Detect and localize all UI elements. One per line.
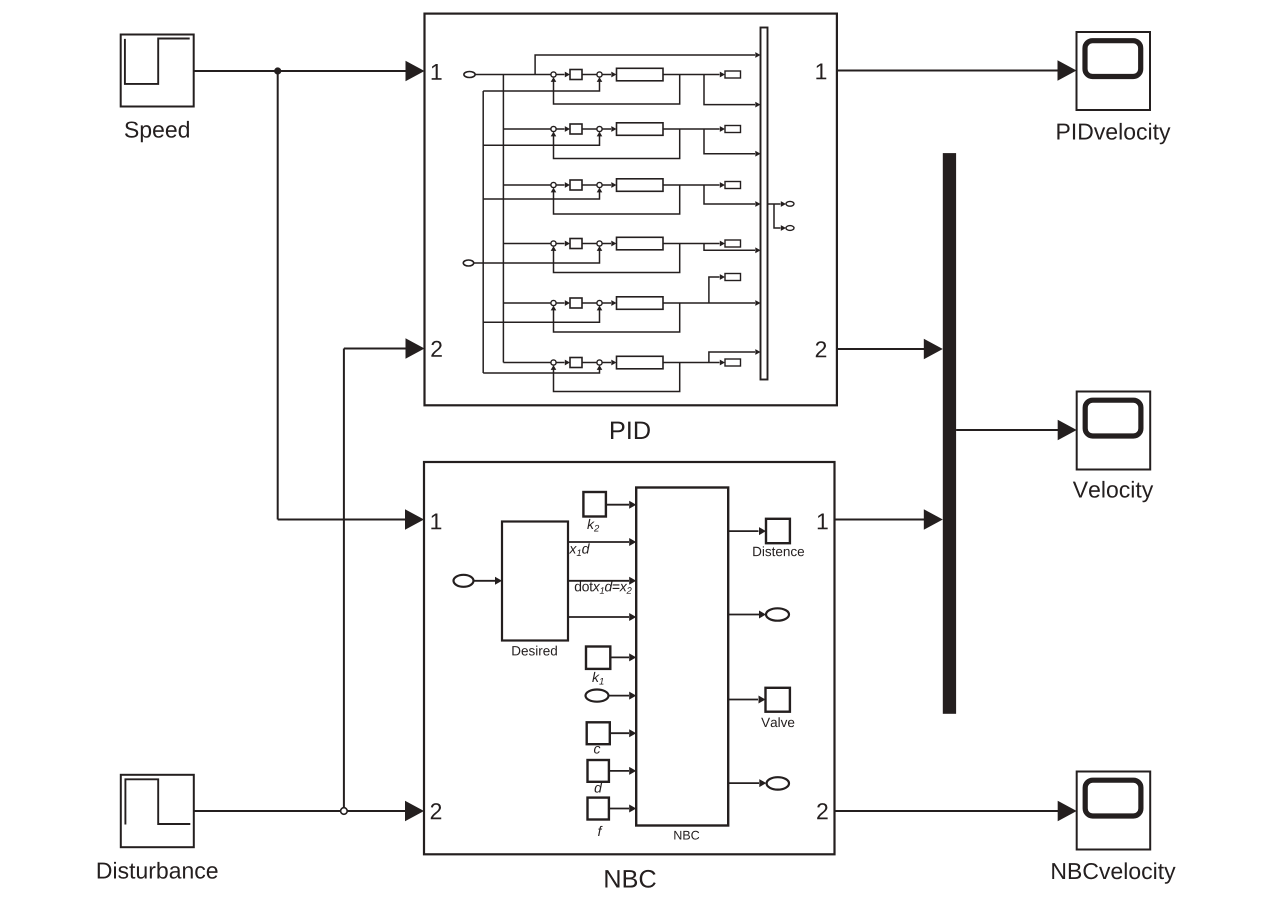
- NBC inner right oval 2: [767, 777, 789, 789]
- step source Speed: [121, 35, 194, 107]
- subsystem NBC box: [424, 462, 835, 854]
- wire mux to Velocity: [956, 420, 1077, 440]
- PID inner row 3 bus A stub: [483, 188, 602, 199]
- NBC inner wire oval to Desired: [474, 577, 503, 585]
- PID inner row 5 branch up to display rect: [709, 274, 725, 303]
- PID inner row 2 gain square: [570, 124, 582, 134]
- PID inner row 1 input wire: [475, 74, 551, 76]
- PID inner wire oval2 to bus A: [474, 262, 484, 264]
- PID port label 2 right: [816, 341, 826, 357]
- PID inner row 4 branch into mux: [704, 244, 761, 254]
- NBC port label 1 left: [431, 513, 441, 529]
- PID inner row 3 wire gain to circle2: [582, 184, 597, 186]
- NBC port label 2 right: [817, 803, 827, 819]
- PID inner row 5 input wire: [503, 302, 551, 304]
- PID inner row 4 bus A stub: [483, 246, 602, 263]
- PID inner row 2 input wire: [503, 128, 551, 130]
- PID inner row 6 bus A stub: [483, 365, 602, 373]
- wire NBC out1 to mux: [835, 509, 943, 529]
- NBC inner constant f: [588, 798, 609, 820]
- PID inner row 1 display rect: [725, 71, 741, 78]
- PID inner row 2 display rect: [725, 126, 741, 133]
- PID inner row 1 wire gain to circle2: [582, 74, 597, 76]
- PID inner row 1 bus A stub: [483, 77, 602, 91]
- PID inner row 2 branch into mux: [704, 129, 761, 157]
- PID inner row 2 sum circle 2: [597, 126, 602, 131]
- mux bar: [943, 153, 956, 714]
- NBC inner constant k2: [583, 492, 606, 517]
- label Valve: [761, 717, 794, 727]
- PID inner row 5 gain square: [570, 298, 582, 308]
- PID inner row 5 sum circle 2: [597, 300, 602, 305]
- PID inner row 2 wire circle1 to gain: [556, 126, 570, 132]
- NBC inner constant c: [587, 722, 610, 744]
- PID inner row 2 bus A stub: [483, 132, 602, 146]
- PID inner row 6 branch up into mux: [709, 349, 761, 362]
- PID inner row 3 branch into mux: [704, 185, 761, 207]
- PID inner mux bar: [761, 28, 768, 380]
- PID inner row 1 transfer fcn block: [617, 68, 664, 81]
- NBC inner wire block to Valve: [728, 696, 765, 704]
- PID inner row 4 input wire: [503, 243, 551, 245]
- PID port label 1 right: [816, 63, 826, 79]
- label f: [598, 826, 603, 836]
- PID inner row 3 display rect: [725, 182, 741, 189]
- PID inner row 5 wire gain to circle2: [582, 302, 597, 304]
- label dotx1d=x2: [575, 581, 632, 594]
- label k2: [587, 519, 599, 532]
- label PIDvelocity: [1057, 123, 1170, 144]
- PID inner row 4 sum circle 1: [551, 241, 556, 246]
- PID inner row 6 sum circle 2: [597, 360, 602, 365]
- NBC inner wire c to block: [610, 729, 636, 737]
- NBC inner block Valve: [766, 688, 790, 712]
- PID inner row 4 display rect: [725, 240, 741, 247]
- wire Speed to PID port 1: [194, 61, 425, 81]
- label Speed: [125, 121, 189, 142]
- NBC inner wire block to Distence: [728, 527, 766, 535]
- NBC inner wire k2 to block: [606, 501, 636, 509]
- scope NBCvelocity: [1077, 772, 1151, 850]
- NBC inner wire block to right oval 2: [728, 779, 766, 787]
- PID port label 2 left: [431, 341, 441, 357]
- wire PID out2 to mux: [837, 339, 943, 359]
- open junction circle on Disturbance wire: [341, 808, 348, 815]
- PID inner row 5 sum circle 1: [551, 300, 556, 305]
- PID inner row 6 feedback loop: [551, 363, 680, 392]
- PID inner row 1 feedback loop: [551, 75, 680, 105]
- PID inner row 3 wire circle2 to tf block: [602, 182, 616, 188]
- PID inner row 3 feedback loop: [551, 185, 680, 214]
- PID inner row 5 transfer fcn block: [617, 297, 664, 310]
- PID inner bus A vertical: [482, 91, 484, 373]
- NBC inner constant d: [588, 760, 609, 782]
- PID inner output oval 1: [786, 201, 794, 206]
- PID inner row 1 bypass wire to mux top: [535, 52, 760, 74]
- scope Velocity: [1077, 392, 1151, 470]
- PID inner row 1 wire circle1 to gain: [556, 72, 570, 78]
- label PID: [611, 422, 650, 439]
- PID inner mux output wires to output ovals: [768, 201, 787, 231]
- PID inner row 5 wire circle1 to gain: [556, 300, 570, 306]
- PID port label 1 left: [432, 64, 442, 80]
- subsystem PID box: [425, 14, 837, 406]
- PID inner row 3 sum circle 1: [551, 182, 556, 187]
- junction dot on Speed wire: [274, 67, 281, 74]
- label NBC: [605, 870, 655, 888]
- NBC inner tall block NBC: [636, 488, 728, 826]
- PID inner row 4 transfer fcn block: [617, 237, 664, 250]
- PID inner row 4 feedback loop: [551, 244, 680, 273]
- PID inner row 3 input wire: [503, 184, 551, 186]
- PID inner row 6 display rect: [725, 359, 741, 366]
- NBC inner wire left oval to block: [609, 692, 637, 700]
- label Distence: [753, 546, 804, 556]
- label Velocity: [1073, 481, 1153, 502]
- wire NBC out2 to NBCvelocity: [835, 801, 1077, 821]
- NBC inner input oval: [454, 575, 474, 587]
- label d: [595, 782, 603, 792]
- label NBC inner: [674, 831, 699, 840]
- PID inner row 6 wire circle1 to gain: [556, 360, 570, 366]
- PID inner row 4 main wire: [663, 241, 725, 247]
- wire PID out1 to PIDvelocity: [837, 60, 1077, 80]
- PID inner row 4 sum circle 2: [597, 241, 602, 246]
- PID inner row 2 transfer fcn block: [617, 123, 664, 136]
- step source Disturbance: [121, 775, 194, 847]
- NBC inner wire Desired out 1: [568, 538, 636, 546]
- PID inner row 1 branch into mux: [704, 75, 761, 108]
- label NBCvelocity: [1052, 862, 1175, 883]
- label x1d: [569, 543, 590, 556]
- label Disturbance: [98, 862, 218, 879]
- PID inner row 3 transfer fcn block: [617, 179, 664, 192]
- PID inner row 2 sum circle 1: [551, 126, 556, 131]
- PID inner row 5 wire circle2 to tf block: [602, 300, 616, 306]
- PID inner row 5 bus A stub: [483, 306, 602, 323]
- PID inner row 1 wire circle2 to tf block: [602, 72, 616, 78]
- PID inner row 3 sum circle 2: [597, 182, 602, 187]
- PID inner row 6 main wire: [663, 360, 725, 366]
- NBC inner wire block to right oval 1: [728, 611, 766, 619]
- wire Disturbance to NBC port 2: [194, 801, 425, 821]
- NBC inner block Distence: [766, 519, 790, 543]
- PID inner row 4 wire circle1 to gain: [556, 241, 570, 247]
- NBC inner wire d to block: [609, 767, 636, 775]
- PID inner row 4 wire gain to circle2: [582, 243, 597, 245]
- wire Speed branch to NBC port 1: [278, 71, 424, 530]
- PID inner row 6 input wire: [503, 362, 551, 364]
- PID inner bus B vertical: [502, 75, 504, 363]
- NBC inner right oval 1: [766, 608, 789, 620]
- PID inner row 2 main wire: [663, 126, 725, 132]
- NBC inner left oval: [586, 690, 609, 702]
- PID inner row 6 gain square: [570, 358, 582, 368]
- PID inner output oval 2: [786, 226, 794, 231]
- PID inner row 6 sum circle 1: [551, 360, 556, 365]
- PID inner row 1 sum circle 1: [551, 72, 556, 77]
- label k1: [592, 672, 603, 685]
- PID inner row 2 wire circle2 to tf block: [602, 126, 616, 132]
- PID inner row 3 main wire: [663, 182, 725, 188]
- PID inner row 6 wire circle2 to tf block: [602, 360, 616, 366]
- wire Disturbance branch to PID port 2: [344, 338, 425, 808]
- NBC port label 1 right: [818, 513, 828, 529]
- PID inner row 6 transfer fcn block: [617, 356, 664, 369]
- NBC inner wire Desired out 3: [568, 613, 636, 621]
- PID inner input oval 1: [464, 72, 475, 78]
- PID inner row 5 display rect: [725, 274, 741, 281]
- PID inner row 2 wire gain to circle2: [582, 128, 597, 130]
- NBC inner wire k1 to block: [610, 653, 636, 661]
- PID inner row 5 main wire into mux: [663, 300, 761, 306]
- label Desired: [512, 646, 557, 656]
- PID inner row 2 feedback loop: [551, 129, 680, 159]
- PID inner row 1 sum circle 2: [597, 72, 602, 77]
- PID inner row 5 feedback loop: [551, 303, 680, 332]
- PID inner row 1 main wire: [663, 72, 725, 78]
- PID inner row 4 wire circle2 to tf block: [602, 241, 616, 247]
- NBC inner wire f to block: [609, 805, 636, 813]
- NBC inner block Desired: [502, 522, 568, 641]
- NBC inner constant k1: [586, 647, 610, 669]
- PID inner row 6 wire gain to circle2: [582, 362, 597, 364]
- PID inner input oval 2: [463, 260, 473, 266]
- scope PIDvelocity: [1077, 32, 1151, 110]
- PID inner row 3 gain square: [570, 180, 582, 190]
- NBC port label 2 left: [431, 803, 441, 819]
- PID inner row 1 gain square: [570, 70, 582, 80]
- NBC inner wire Desired out 2: [568, 577, 636, 585]
- label c: [594, 746, 600, 754]
- PID inner row 3 wire circle1 to gain: [556, 182, 570, 188]
- PID inner row 4 gain square: [570, 239, 582, 249]
